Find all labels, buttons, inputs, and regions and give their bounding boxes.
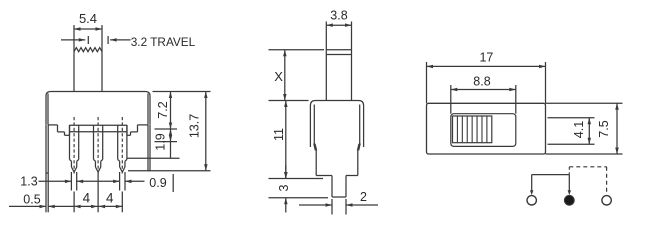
svg-text:0.5: 0.5: [23, 192, 40, 206]
svg-text:4: 4: [106, 190, 114, 205]
svg-text:11: 11: [272, 128, 286, 141]
svg-text:5.4: 5.4: [79, 11, 97, 26]
svg-text:3.8: 3.8: [330, 9, 347, 23]
svg-text:4: 4: [83, 190, 91, 205]
svg-text:17: 17: [479, 50, 493, 64]
svg-text:3.2 TRAVEL: 3.2 TRAVEL: [131, 35, 196, 49]
svg-text:0.9: 0.9: [149, 176, 166, 190]
svg-text:2: 2: [360, 190, 367, 204]
svg-text:3: 3: [277, 184, 291, 191]
svg-text:1.3: 1.3: [20, 175, 37, 189]
svg-text:8.8: 8.8: [473, 75, 490, 89]
svg-text:1.9: 1.9: [154, 133, 168, 150]
svg-text:7.5: 7.5: [597, 120, 611, 137]
svg-text:4.1: 4.1: [572, 121, 586, 138]
svg-text:13.7: 13.7: [188, 114, 202, 138]
svg-text:7.2: 7.2: [156, 101, 170, 118]
svg-text:X: X: [274, 69, 283, 84]
